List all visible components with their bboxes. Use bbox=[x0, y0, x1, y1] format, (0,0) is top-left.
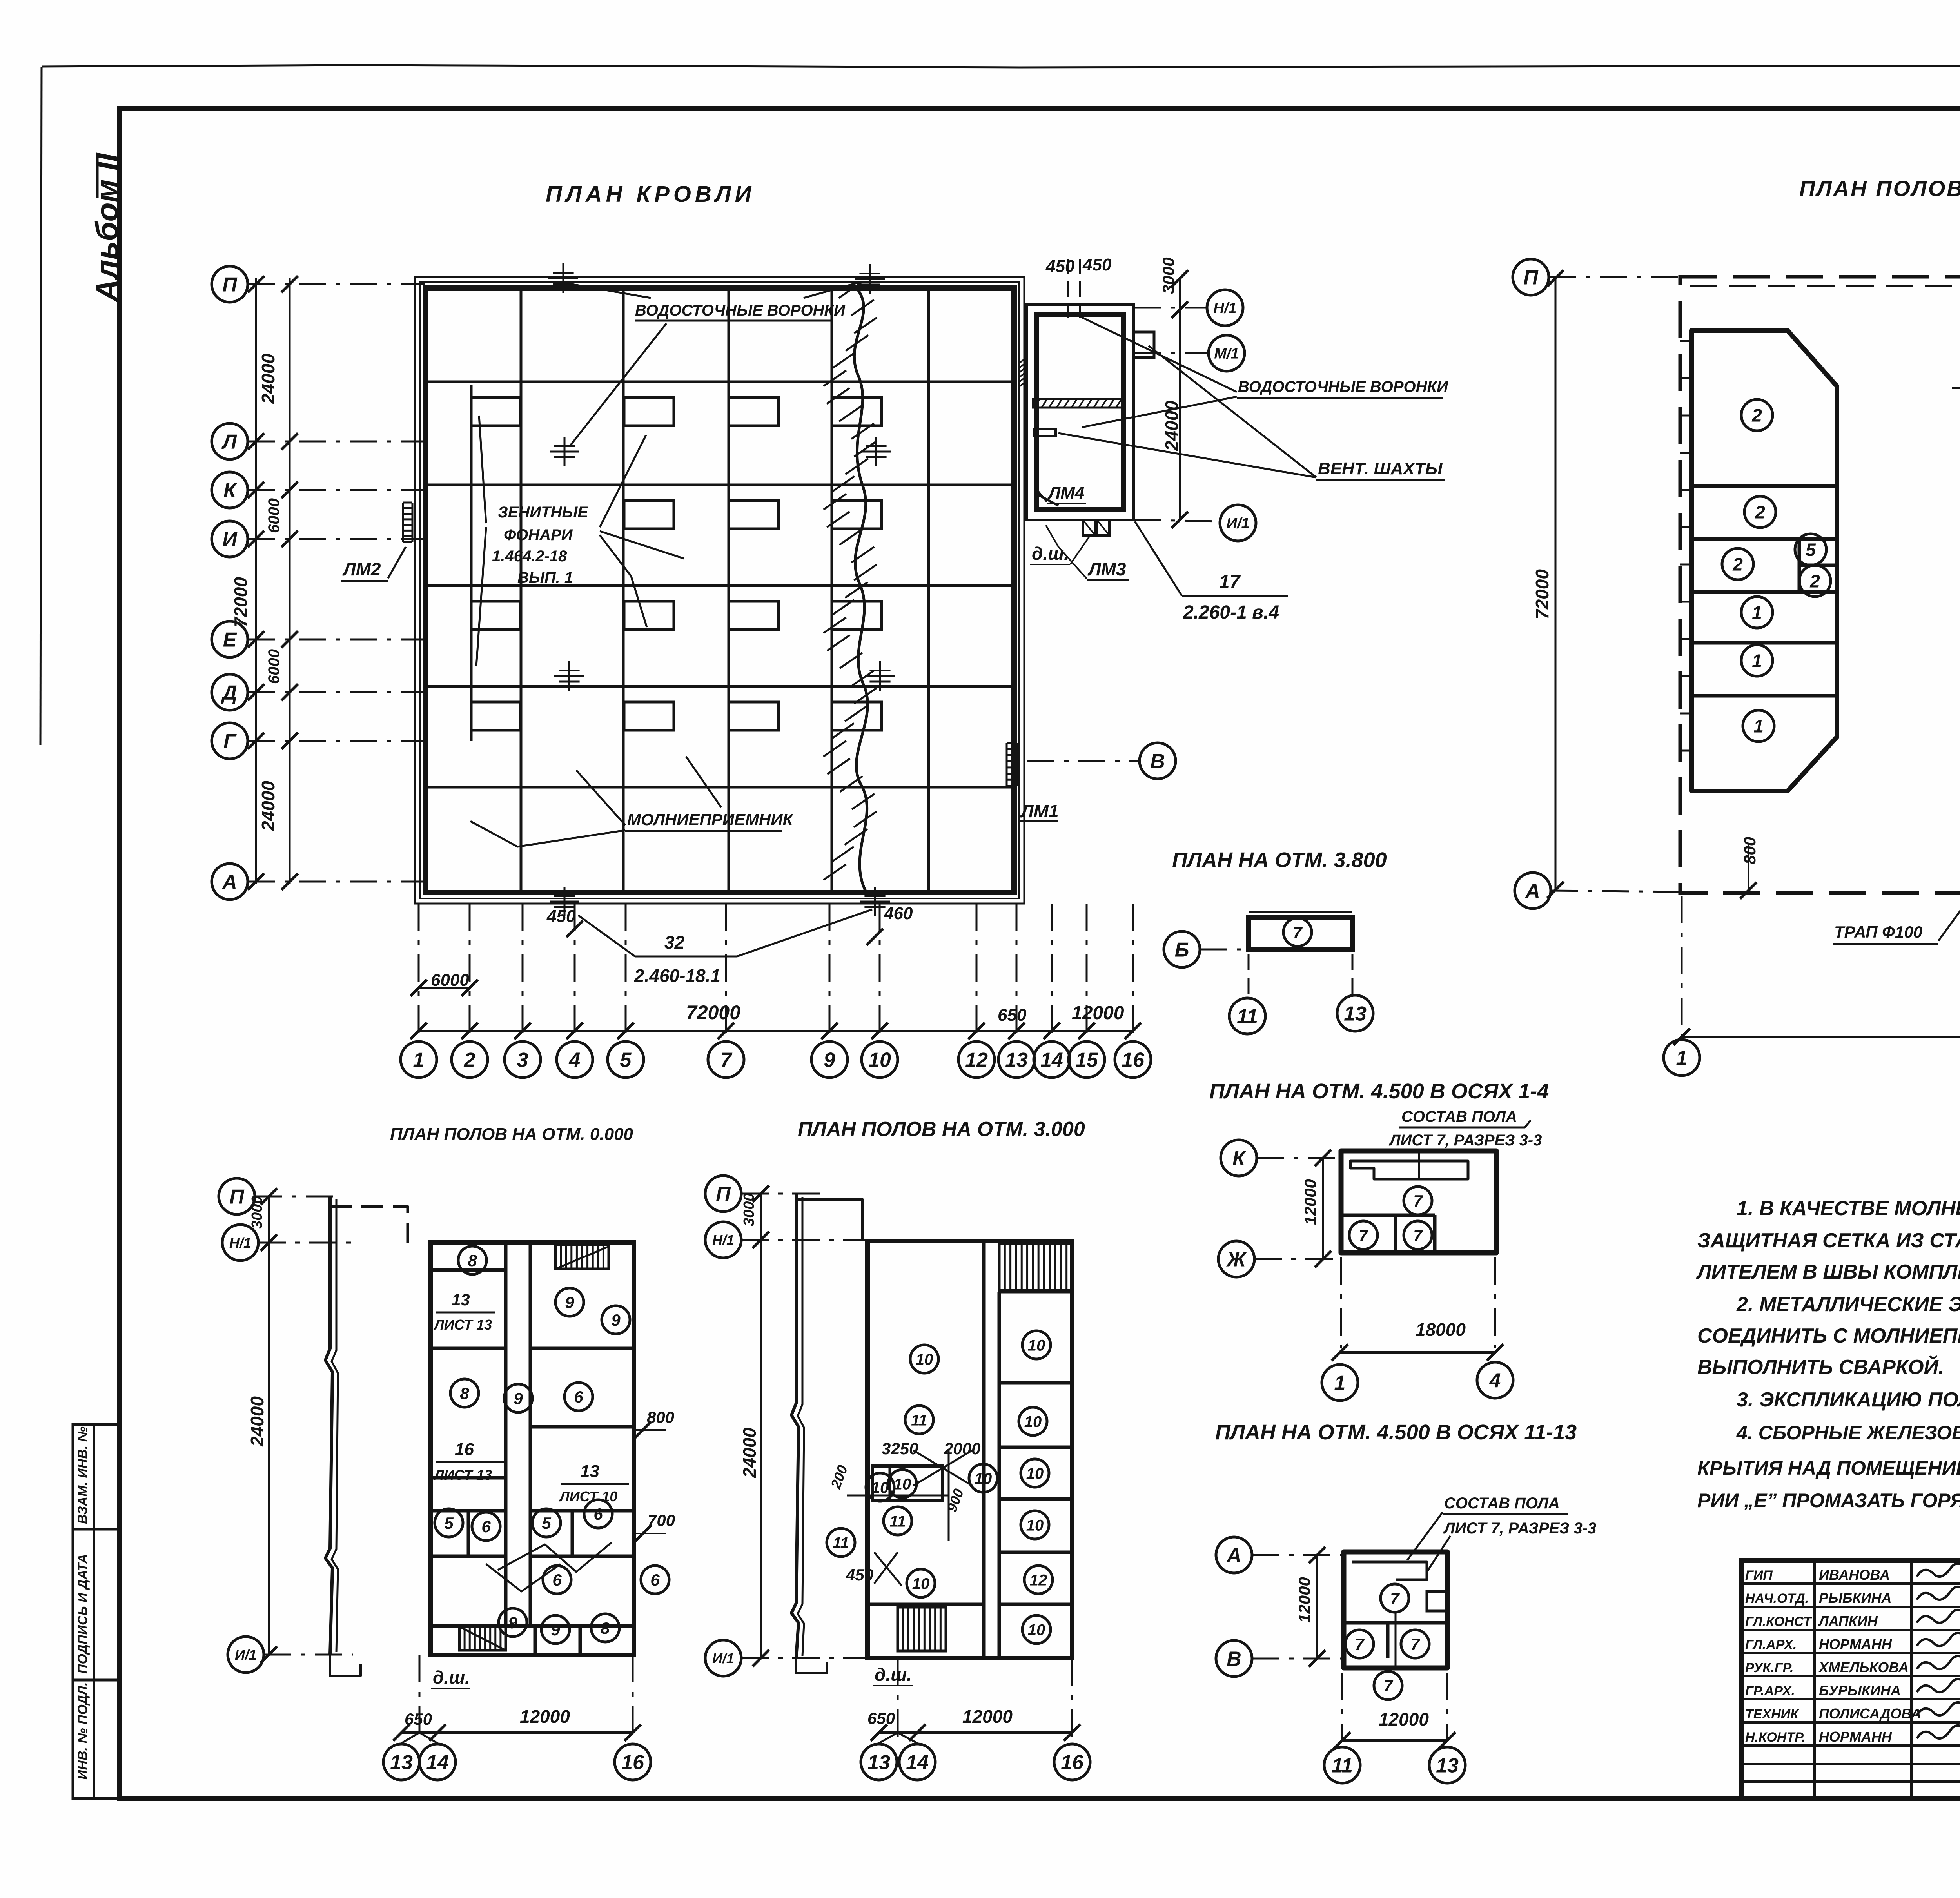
svg-text:13: 13 bbox=[580, 1462, 599, 1481]
svg-text:ПЛАН КРОВЛИ: ПЛАН КРОВЛИ bbox=[546, 181, 755, 207]
svg-text:Н/1: Н/1 bbox=[229, 1235, 251, 1251]
svg-text:14: 14 bbox=[1040, 1049, 1063, 1072]
svg-text:7: 7 bbox=[720, 1049, 733, 1072]
svg-text:6: 6 bbox=[574, 1388, 583, 1406]
svg-text:А: А bbox=[221, 871, 237, 894]
svg-text:11: 11 bbox=[911, 1412, 927, 1429]
svg-text:9: 9 bbox=[514, 1389, 523, 1408]
plan1 top dashed edge bbox=[330, 1207, 408, 1243]
svg-text:5: 5 bbox=[1806, 540, 1816, 560]
svg-text:ВЗАМ. ИНВ. №: ВЗАМ. ИНВ. № bbox=[75, 1426, 90, 1524]
svg-text:13: 13 bbox=[867, 1751, 890, 1774]
svg-text:ПЛАН НА ОТМ. 4.500 В ОСЯХ 1-4: ПЛАН НА ОТМ. 4.500 В ОСЯХ 1-4 bbox=[1209, 1080, 1549, 1103]
svg-text:12000: 12000 bbox=[1072, 1003, 1124, 1023]
svg-text:650: 650 bbox=[998, 1005, 1027, 1025]
plan1 main block bbox=[431, 1243, 634, 1655]
svg-text:А: А bbox=[1226, 1544, 1241, 1567]
title block left table rows bbox=[1742, 1582, 1960, 1585]
svg-text:9: 9 bbox=[824, 1049, 835, 1072]
svg-text:3000: 3000 bbox=[249, 1196, 265, 1229]
svg-text:ЛИТЕЛЕМ В ШВЫ КОМПЛЕКСНЫХ П: ЛИТЕЛЕМ В ШВЫ КОМПЛЕКСНЫХ ПЛИТ ПОКРЫТИЯ. bbox=[1696, 1261, 1960, 1283]
right plan dashed outline bbox=[1680, 277, 1960, 893]
svg-text:ПОЛИСАДОВА: ПОЛИСАДОВА bbox=[1819, 1706, 1921, 1722]
svg-text:16: 16 bbox=[1122, 1049, 1145, 1072]
svg-text:И/1: И/1 bbox=[235, 1647, 257, 1663]
svg-text:12: 12 bbox=[965, 1049, 988, 1072]
roof plan bottom axis circles bbox=[401, 1042, 437, 1078]
plan 4.500 1-4 bbox=[1221, 1140, 1257, 1176]
svg-text:18000: 18000 bbox=[1416, 1319, 1466, 1340]
plan2 top step bbox=[796, 1199, 862, 1240]
svg-text:14: 14 bbox=[426, 1751, 449, 1774]
plan1 left wavy wall bbox=[325, 1196, 332, 1655]
svg-text:10: 10 bbox=[1024, 1413, 1042, 1430]
svg-text:ИВАНОВА: ИВАНОВА bbox=[1819, 1567, 1890, 1583]
svg-text:ГЛ.КОНСТ: ГЛ.КОНСТ bbox=[1745, 1614, 1813, 1629]
svg-text:НОРМАНН: НОРМАНН bbox=[1819, 1636, 1892, 1652]
svg-text:1: 1 bbox=[1334, 1372, 1346, 1395]
svg-text:ЛИСТ 7, РАЗРЕЗ 3-3: ЛИСТ 7, РАЗРЕЗ 3-3 bbox=[1443, 1520, 1596, 1537]
svg-text:ТРАП Ф100: ТРАП Ф100 bbox=[1834, 923, 1922, 941]
annex wall hatch left bbox=[1020, 358, 1026, 363]
svg-text:24000: 24000 bbox=[258, 354, 278, 404]
svg-text:ЛИСТ 13: ЛИСТ 13 bbox=[433, 1317, 492, 1333]
svg-text:9: 9 bbox=[551, 1620, 560, 1639]
svg-text:4. СБОРНЫЕ ЖЕЛЕЗОБЕТОННЫЕ ПЛ: 4. СБОРНЫЕ ЖЕЛЕЗОБЕТОННЫЕ ПЛИТЫ ПЕРЕ- bbox=[1736, 1422, 1960, 1444]
zenith lantern rectangles bbox=[624, 397, 674, 426]
svg-text:Н/1: Н/1 bbox=[712, 1232, 734, 1248]
plan2 main block bbox=[867, 1241, 1072, 1658]
svg-text:16: 16 bbox=[455, 1440, 474, 1459]
svg-text:4: 4 bbox=[1489, 1370, 1501, 1392]
title block left table verticals bbox=[1813, 1560, 1816, 1798]
svg-text:7: 7 bbox=[1383, 1677, 1393, 1695]
svg-text:24000: 24000 bbox=[739, 1428, 760, 1478]
outer border top bbox=[42, 65, 1960, 69]
plan2 bottom stair bbox=[898, 1607, 946, 1651]
plan2 axis circles bbox=[705, 1176, 741, 1212]
svg-text:2.260-1 в.4: 2.260-1 в.4 bbox=[1183, 602, 1279, 623]
svg-text:450: 450 bbox=[1045, 257, 1075, 276]
svg-text:2.460-18.1: 2.460-18.1 bbox=[634, 965, 720, 986]
svg-text:ЛИСТ 10: ЛИСТ 10 bbox=[559, 1488, 617, 1504]
svg-text:450: 450 bbox=[846, 1566, 873, 1584]
svg-text:ПЛАН ПОЛОВ НА ОТМ. 3.000: ПЛАН ПОЛОВ НА ОТМ. 3.000 bbox=[798, 1118, 1085, 1141]
svg-text:9: 9 bbox=[565, 1293, 574, 1312]
svg-text:16: 16 bbox=[1061, 1751, 1084, 1774]
svg-text:13: 13 bbox=[452, 1290, 470, 1309]
svg-text:П: П bbox=[229, 1186, 245, 1208]
svg-text:К: К bbox=[1232, 1147, 1246, 1170]
svg-text:24000: 24000 bbox=[258, 781, 278, 831]
plan2 dim verticals bbox=[760, 1194, 762, 1658]
svg-text:460: 460 bbox=[884, 904, 913, 923]
svg-text:В: В bbox=[1227, 1648, 1241, 1671]
svg-text:ЛМ4: ЛМ4 bbox=[1047, 483, 1084, 503]
svg-text:1. В КАЧЕСТВЕ МОЛНИЕПРИЕМН: 1. В КАЧЕСТВЕ МОЛНИЕПРИЕМНИКА НА КРОВЛЕ … bbox=[1737, 1197, 1960, 1220]
svg-text:СОСТАВ ПОЛА: СОСТАВ ПОЛА bbox=[1444, 1495, 1560, 1512]
svg-text:И/1: И/1 bbox=[712, 1650, 734, 1666]
svg-text:15: 15 bbox=[1075, 1049, 1098, 1072]
svg-text:2: 2 bbox=[1809, 571, 1820, 592]
svg-text:1: 1 bbox=[413, 1049, 425, 1072]
svg-text:12000: 12000 bbox=[1379, 1709, 1429, 1729]
svg-text:2: 2 bbox=[1755, 502, 1765, 523]
svg-text:5: 5 bbox=[542, 1514, 551, 1532]
svg-text:650: 650 bbox=[405, 1710, 432, 1728]
svg-text:6: 6 bbox=[593, 1505, 603, 1523]
svg-text:10: 10 bbox=[1026, 1465, 1044, 1482]
svg-text:ЛИСТ 13: ЛИСТ 13 bbox=[433, 1467, 492, 1483]
svg-text:13: 13 bbox=[390, 1751, 413, 1774]
svg-text:10: 10 bbox=[1028, 1621, 1045, 1639]
svg-text:800: 800 bbox=[1740, 837, 1759, 864]
svg-text:П: П bbox=[222, 274, 238, 296]
svg-text:8: 8 bbox=[460, 1384, 469, 1403]
plan1 axis circles bbox=[219, 1178, 255, 1214]
svg-text:ЗЕНИТНЫЕ: ЗЕНИТНЫЕ bbox=[498, 504, 588, 521]
svg-text:ПЛАН ПОЛОВ НА ОТМ. 0.000: ПЛАН ПОЛОВ НА ОТМ. 0.000 bbox=[1799, 176, 1960, 201]
svg-text:32: 32 bbox=[664, 932, 685, 953]
svg-text:6: 6 bbox=[650, 1571, 660, 1589]
svg-text:НАЧ.ОТД.: НАЧ.ОТД. bbox=[1745, 1591, 1809, 1606]
svg-text:Е: Е bbox=[223, 629, 237, 651]
svg-text:7: 7 bbox=[1355, 1635, 1365, 1653]
svg-text:П: П bbox=[716, 1183, 731, 1206]
svg-text:12000: 12000 bbox=[520, 1706, 570, 1727]
svg-text:ЛМ3: ЛМ3 bbox=[1087, 559, 1126, 579]
plan1 bottom dims bbox=[401, 1731, 633, 1734]
svg-text:И: И bbox=[222, 528, 238, 551]
svg-text:В: В bbox=[1150, 750, 1165, 773]
svg-text:10: 10 bbox=[975, 1470, 992, 1487]
plan1 bottom stair bbox=[459, 1627, 506, 1650]
svg-text:ПОДПИСЬ И ДАТА: ПОДПИСЬ И ДАТА bbox=[75, 1554, 90, 1674]
roof plan bottom dimension line bbox=[419, 1030, 1133, 1032]
svg-text:7: 7 bbox=[1293, 923, 1303, 942]
plan1 top stair bbox=[555, 1245, 609, 1269]
left block left wall ticks bbox=[1680, 340, 1691, 342]
roof plan outer square bbox=[415, 277, 1024, 904]
left rooms dividers bbox=[1691, 484, 1837, 488]
svg-text:ЛМ1: ЛМ1 bbox=[1020, 801, 1059, 821]
svg-text:СОЕДИНИТЬ С МОЛНИЕПРИЕМНОЙ С: СОЕДИНИТЬ С МОЛНИЕПРИЕМНОЙ СЕТКОЙ. ВСЕ С… bbox=[1697, 1324, 1960, 1347]
svg-text:72000: 72000 bbox=[230, 577, 251, 627]
plan 4.500 11-13 bbox=[1216, 1537, 1252, 1573]
svg-text:СОСТАВ ПОЛА: СОСТАВ ПОЛА bbox=[1401, 1108, 1517, 1125]
svg-text:МОЛНИЕПРИЕМНИК: МОЛНИЕПРИЕМНИК bbox=[627, 810, 794, 829]
roof plan left axis circles bbox=[212, 266, 248, 302]
title block outer bbox=[1742, 1560, 1960, 1798]
svg-text:650: 650 bbox=[867, 1709, 895, 1727]
svg-text:ГЛ.АРХ.: ГЛ.АРХ. bbox=[1745, 1637, 1797, 1652]
svg-text:7: 7 bbox=[1410, 1635, 1420, 1653]
svg-text:ПЛАН НА ОТМ. 3.800: ПЛАН НА ОТМ. 3.800 bbox=[1172, 848, 1387, 872]
svg-text:КРЫТИЯ НАД ПОМЕЩЕНИЕМ ЗАРЯДНОЙ: КРЫТИЯ НАД ПОМЕЩЕНИЕМ ЗАРЯДНОЙ КАТЕГО- bbox=[1697, 1457, 1960, 1479]
svg-text:Д: Д bbox=[221, 682, 237, 704]
svg-text:Л: Л bbox=[221, 431, 237, 454]
roof plan left dimension lines bbox=[255, 278, 257, 884]
svg-text:М/1: М/1 bbox=[1214, 346, 1239, 362]
svg-text:д.ш.: д.ш. bbox=[875, 1664, 912, 1685]
svg-text:4: 4 bbox=[569, 1049, 581, 1072]
LM1 ladder right bbox=[1006, 743, 1008, 786]
svg-text:450: 450 bbox=[546, 907, 576, 926]
svg-text:450: 450 bbox=[1082, 255, 1112, 274]
svg-text:Н/1: Н/1 bbox=[1213, 300, 1236, 317]
svg-text:16: 16 bbox=[621, 1751, 644, 1774]
cross markers roof bbox=[548, 278, 578, 279]
svg-text:К: К bbox=[223, 479, 237, 502]
plan2 left wavy wall bbox=[791, 1194, 799, 1658]
svg-text:2: 2 bbox=[464, 1049, 475, 1072]
plan2 top stair bbox=[999, 1243, 1072, 1290]
annex hatched slab band bbox=[1033, 399, 1123, 408]
svg-text:10: 10 bbox=[894, 1475, 911, 1493]
svg-text:700: 700 bbox=[648, 1511, 675, 1530]
svg-text:17: 17 bbox=[1219, 572, 1241, 592]
svg-text:11: 11 bbox=[1332, 1755, 1353, 1777]
svg-text:д.ш.: д.ш. bbox=[433, 1667, 470, 1688]
wavy expansion joint with hatching bbox=[854, 288, 867, 893]
svg-text:1: 1 bbox=[1753, 716, 1764, 737]
svg-text:ЛМ2: ЛМ2 bbox=[342, 559, 381, 579]
annex right bump bbox=[1134, 332, 1154, 357]
svg-text:БУРЫКИНА: БУРЫКИНА bbox=[1819, 1682, 1901, 1698]
svg-text:10: 10 bbox=[912, 1575, 930, 1592]
right plan bottom dimension bbox=[1682, 1036, 1960, 1038]
left stamp column bbox=[73, 1424, 119, 1798]
svg-text:12000: 12000 bbox=[962, 1706, 1013, 1727]
svg-text:10: 10 bbox=[1028, 1337, 1045, 1354]
svg-text:13: 13 bbox=[1005, 1049, 1028, 1072]
svg-text:1: 1 bbox=[1676, 1047, 1688, 1070]
svg-text:3: 3 bbox=[517, 1049, 528, 1072]
annex inner rect bbox=[1037, 315, 1123, 510]
d.sh boxes below annex bbox=[1083, 520, 1095, 535]
svg-text:2: 2 bbox=[1751, 405, 1762, 426]
annex right dim 3000 24000 bbox=[1179, 277, 1181, 521]
svg-text:9: 9 bbox=[508, 1613, 517, 1632]
left notch rects bbox=[471, 397, 520, 426]
svg-text:5: 5 bbox=[444, 1514, 454, 1532]
svg-text:7: 7 bbox=[1390, 1589, 1400, 1608]
left rooms block outline bbox=[1691, 330, 1837, 592]
svg-text:6000: 6000 bbox=[265, 498, 283, 533]
svg-text:ВЫПОЛНИТЬ СВАРКОЙ.: ВЫПОЛНИТЬ СВАРКОЙ. bbox=[1697, 1355, 1944, 1379]
plan1 room circles bbox=[458, 1246, 486, 1274]
plan 3.800 bbox=[1164, 931, 1200, 967]
room number circles left block bbox=[1741, 399, 1773, 431]
svg-text:10: 10 bbox=[868, 1049, 891, 1072]
roof horizontal band lines bbox=[425, 381, 1014, 383]
svg-text:2. МЕТАЛЛИЧЕСКИЕ ЭЛЕМЕНТЫ: 2. МЕТАЛЛИЧЕСКИЕ ЭЛЕМЕНТЫ ЗДАНИЯ, РАСПОЛ… bbox=[1736, 1293, 1960, 1316]
plan1 dim verticals bbox=[268, 1196, 270, 1655]
svg-text:Б: Б bbox=[1175, 939, 1189, 962]
svg-text:11: 11 bbox=[889, 1513, 906, 1530]
roof vertical axis lines bbox=[520, 288, 523, 893]
svg-text:2000: 2000 bbox=[944, 1439, 980, 1458]
svg-text:13: 13 bbox=[1436, 1755, 1459, 1777]
svg-text:ВОДОСТОЧНЫЕ ВОРОНКИ: ВОДОСТОЧНЫЕ ВОРОНКИ bbox=[1238, 378, 1448, 396]
svg-text:10: 10 bbox=[871, 1479, 889, 1496]
svg-text:ВЫП. 1: ВЫП. 1 bbox=[517, 569, 573, 586]
plan1 leader scribble bbox=[498, 1542, 612, 1572]
annex vent rect bbox=[1034, 429, 1056, 436]
svg-text:ПЛАН ПОЛОВ НА ОТМ. 0.000: ПЛАН ПОЛОВ НА ОТМ. 0.000 bbox=[390, 1125, 633, 1144]
svg-text:ПЛАН НА ОТМ. 4.500 В ОСЯХ 11-1: ПЛАН НА ОТМ. 4.500 В ОСЯХ 11-13 bbox=[1215, 1421, 1577, 1444]
svg-text:7: 7 bbox=[1413, 1226, 1423, 1245]
svg-text:Г: Г bbox=[223, 730, 237, 753]
svg-text:6: 6 bbox=[481, 1517, 491, 1536]
svg-text:6: 6 bbox=[552, 1571, 562, 1589]
svg-text:ИНВ. № ПОДЛ.: ИНВ. № ПОДЛ. bbox=[75, 1682, 90, 1780]
svg-text:ЛАПКИН: ЛАПКИН bbox=[1818, 1613, 1878, 1629]
annex outer rect bbox=[1027, 305, 1134, 520]
svg-text:72000: 72000 bbox=[1532, 569, 1552, 619]
axis B circle right bbox=[1027, 760, 1139, 762]
svg-text:7: 7 bbox=[1359, 1226, 1368, 1245]
svg-text:ВЕНТ. ШАХТЫ: ВЕНТ. ШАХТЫ bbox=[1318, 459, 1443, 478]
svg-text:1: 1 bbox=[1752, 651, 1762, 671]
svg-text:8: 8 bbox=[468, 1251, 477, 1270]
svg-text:9: 9 bbox=[611, 1311, 621, 1329]
svg-text:Ж: Ж bbox=[1226, 1248, 1247, 1271]
svg-text:ФОНАРИ: ФОНАРИ bbox=[504, 526, 573, 544]
svg-text:12000: 12000 bbox=[1295, 1577, 1314, 1623]
plan2 middle cluster bbox=[872, 1466, 943, 1501]
svg-text:5: 5 bbox=[620, 1049, 632, 1072]
svg-text:РИИ „Е” ПРОМАЗАТЬ ГОРЯЧИМ БИТУ: РИИ „Е” ПРОМАЗАТЬ ГОРЯЧИМ БИТУМОМ. bbox=[1697, 1490, 1960, 1512]
plan1 inner walls bbox=[504, 1243, 508, 1626]
right plan left axis bbox=[1513, 259, 1549, 295]
svg-text:НОРМАНН: НОРМАНН bbox=[1819, 1729, 1892, 1745]
outer border left bbox=[40, 67, 42, 745]
svg-text:Альбом II: Альбом II bbox=[89, 152, 124, 303]
LM2 ladder bbox=[402, 503, 404, 542]
plan2 inner walls bbox=[982, 1241, 986, 1658]
svg-text:3. ЭКСПЛИКАЦИЮ ПОЛОВ И ПР: 3. ЭКСПЛИКАЦИЮ ПОЛОВ И ПРИМЕЧАНИЯ СМ. ЛИ… bbox=[1737, 1388, 1960, 1411]
svg-text:ВОДОСТОЧНЫЕ ВОРОНКИ: ВОДОСТОЧНЫЕ ВОРОНКИ bbox=[635, 302, 846, 319]
svg-text:10: 10 bbox=[1026, 1517, 1044, 1534]
svg-text:РЫБКИНА: РЫБКИНА bbox=[1819, 1590, 1892, 1606]
svg-text:12000: 12000 bbox=[1301, 1179, 1319, 1225]
svg-text:П: П bbox=[1523, 267, 1539, 289]
right plan inner dashed line top bbox=[1690, 285, 1960, 287]
svg-text:8: 8 bbox=[601, 1619, 610, 1637]
svg-text:13: 13 bbox=[1344, 1003, 1367, 1025]
plan2 room circles bbox=[910, 1345, 938, 1373]
svg-text:11: 11 bbox=[833, 1534, 849, 1551]
svg-text:12: 12 bbox=[1030, 1571, 1047, 1589]
svg-text:10: 10 bbox=[916, 1351, 933, 1368]
svg-text:3250: 3250 bbox=[882, 1439, 918, 1458]
svg-text:1: 1 bbox=[1752, 602, 1762, 623]
svg-text:ЗАЩИТНАЯ СЕТКА ИЗ СТАЛЬНОЙ: ЗАЩИТНАЯ СЕТКА ИЗ СТАЛЬНОЙ ПРОВОЛОКИ Ф 6… bbox=[1697, 1228, 1960, 1252]
svg-text:И/1: И/1 bbox=[1226, 515, 1249, 532]
svg-text:14: 14 bbox=[906, 1751, 929, 1774]
plan2 bottom dims bbox=[879, 1731, 1072, 1734]
axis circles N/1 M/1 I/1 right bbox=[1134, 307, 1207, 309]
svg-text:6000: 6000 bbox=[265, 649, 283, 684]
svg-text:2: 2 bbox=[1732, 554, 1743, 575]
svg-text:ГИП: ГИП bbox=[1745, 1568, 1773, 1583]
svg-text:3000: 3000 bbox=[1159, 258, 1178, 294]
svg-text:ЛИСТ 7, РАЗРЕЗ 3-3: ЛИСТ 7, РАЗРЕЗ 3-3 bbox=[1388, 1132, 1542, 1149]
svg-text:ХМЕЛЬКОВА: ХМЕЛЬКОВА bbox=[1818, 1659, 1909, 1675]
svg-text:1.464.2-18: 1.464.2-18 bbox=[492, 548, 567, 565]
svg-text:24000: 24000 bbox=[247, 1396, 267, 1447]
svg-text:3000: 3000 bbox=[741, 1193, 757, 1226]
svg-text:ГР.АРХ.: ГР.АРХ. bbox=[1745, 1684, 1795, 1698]
roof plan inner square bbox=[425, 288, 1014, 893]
svg-text:11: 11 bbox=[1237, 1005, 1258, 1028]
svg-text:72000: 72000 bbox=[686, 1002, 740, 1023]
svg-text:7: 7 bbox=[1413, 1192, 1423, 1210]
svg-text:Н.КОНТР.: Н.КОНТР. bbox=[1745, 1730, 1806, 1745]
svg-text:А: А bbox=[1524, 880, 1540, 903]
svg-text:РУК.ГР.: РУК.ГР. bbox=[1745, 1660, 1794, 1675]
svg-text:ТЕХНИК: ТЕХНИК bbox=[1745, 1707, 1799, 1722]
